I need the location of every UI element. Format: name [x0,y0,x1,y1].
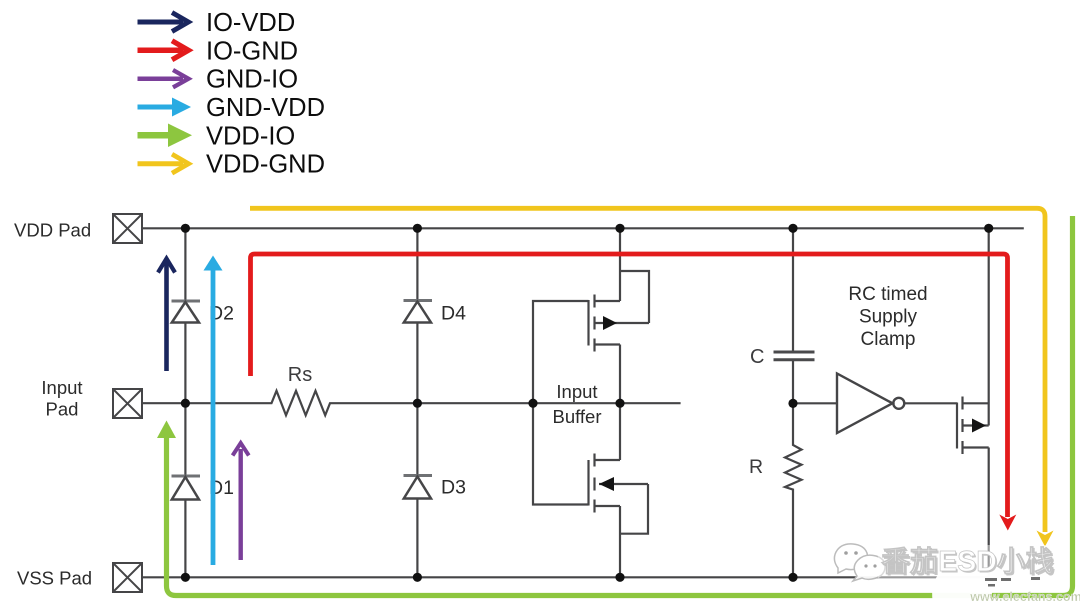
legend arrow VDD-IO (green) [138,124,193,148]
svg-text:Buffer: Buffer [552,406,601,427]
svg-text:番茄ESD小栈: 番茄ESD小栈 [880,546,1054,578]
wire input buffer gate column [533,301,589,505]
inverter U1 [837,374,904,434]
svg-text:Rs: Rs [288,364,312,386]
ESD path VDD-IO (green, around bottom and right) [157,216,1073,596]
transistor PMOS input buffer (top) [589,228,650,403]
clamp NMOS bulk arrow [972,419,986,433]
ESD path arrow GND-IO (purple, up) [233,443,249,560]
ESD path arrow IO-VDD (navy, up) [158,259,175,372]
wire capacitor to node [792,361,794,404]
svg-text:IO-VDD: IO-VDD [206,9,295,37]
wire node to inverter [793,402,837,404]
watermark residue marks [985,577,1040,587]
VDD pad symbol [113,214,142,243]
svg-text:Input: Input [41,377,82,398]
watermark text 番茄ESD小栈 [878,545,1056,583]
svg-text:IO-GND: IO-GND [206,37,298,65]
svg-text:VDD-GND: VDD-GND [206,151,325,179]
wire left vertical (pads column) [184,228,186,577]
capacitor C [774,352,815,360]
svg-text:RC timed: RC timed [848,284,927,305]
PMOS bulk arrow [603,316,617,330]
diode D1 [172,476,201,500]
svg-text:VDD Pad: VDD Pad [14,220,91,241]
svg-text:Pad: Pad [46,399,79,420]
diode D3 [404,476,433,499]
svg-text:Supply: Supply [859,307,918,328]
svg-text:Clamp: Clamp [861,329,916,350]
wire node to resistor R and to VSS [785,403,802,577]
legend arrow VDD-GND (yellow) [138,154,189,173]
wire VDD rail [142,227,1024,229]
diode D2 [172,301,201,323]
wire input line with resistor Rs [142,391,681,416]
svg-text:GND-VDD: GND-VDD [206,94,325,122]
svg-text:Input: Input [556,381,597,402]
VSS pad symbol [113,563,142,592]
wire inverter output to clamp gate [904,402,957,404]
diode D4 [404,301,433,323]
watermark wechat icon [834,544,885,581]
legend arrow IO-VDD (navy) [138,13,189,32]
svg-text:D3: D3 [441,477,466,499]
NMOS bulk arrow [599,477,614,491]
svg-text:C: C [750,346,764,368]
input pad symbol [113,389,142,418]
legend arrow IO-GND (red) [138,41,189,60]
ESD path VDD-GND (yellow, over top and down right) [250,208,1054,546]
transistor NMOS clamp [957,228,989,577]
wire capacitor branch top [792,228,794,351]
ESD path IO-GND (red, over top and down right) [251,254,1017,531]
ESD path arrow GND-VDD (cyan, up) [204,256,223,566]
watermark blob [932,557,993,611]
legend arrow GND-VDD (cyan) [138,98,192,117]
svg-text:www.elecfans.com: www.elecfans.com [969,590,1080,604]
wire VSS rail [142,576,989,578]
svg-text:VDD-IO: VDD-IO [206,122,295,150]
svg-text:D4: D4 [441,303,466,325]
svg-text:VSS Pad: VSS Pad [17,568,92,589]
wire second vertical (D4/D3 column) [416,228,418,577]
transistor NMOS input buffer (bottom) [589,403,649,577]
svg-text:GND-IO: GND-IO [206,66,298,94]
legend arrow GND-IO (purple) [138,70,189,87]
svg-text:R: R [749,456,763,478]
